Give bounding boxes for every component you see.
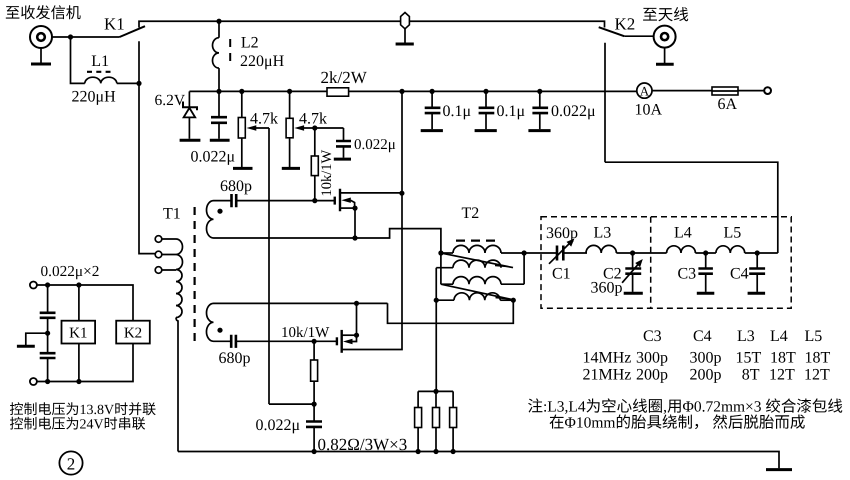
svg-text:C3: C3 <box>678 266 697 283</box>
svg-text:300p: 300p <box>636 350 668 367</box>
svg-text:15T: 15T <box>736 350 762 367</box>
svg-text:680p: 680p <box>219 350 251 367</box>
svg-text:10A: 10A <box>635 102 663 119</box>
svg-text:0.022μ: 0.022μ <box>551 103 596 120</box>
svg-text:0.82Ω/3W×3: 0.82Ω/3W×3 <box>318 435 408 454</box>
svg-text:18T: 18T <box>770 350 796 367</box>
svg-text:0.022μ: 0.022μ <box>256 417 301 434</box>
svg-text:12T: 12T <box>804 367 830 384</box>
svg-text:在Φ10mm的胎具绕制， 然后脱胎而成: 在Φ10mm的胎具绕制， 然后脱胎而成 <box>549 414 805 432</box>
svg-text:680p: 680p <box>220 178 252 195</box>
svg-text:2: 2 <box>67 455 76 474</box>
svg-text:0.1μ: 0.1μ <box>443 103 472 120</box>
svg-text:21MHz: 21MHz <box>583 367 632 384</box>
svg-text:L4: L4 <box>770 328 788 345</box>
svg-text:0.022μ: 0.022μ <box>354 137 396 153</box>
svg-text:200p: 200p <box>690 367 722 384</box>
svg-text:2k/2W: 2k/2W <box>321 68 368 87</box>
svg-text:300p: 300p <box>690 350 722 367</box>
svg-text:8T: 8T <box>742 367 760 384</box>
svg-text:A: A <box>640 83 650 98</box>
svg-text:注:L3,L4为空心线圈,用Φ0.72mm×3 绞合漆包线: 注:L3,L4为空心线圈,用Φ0.72mm×3 绞合漆包线 <box>528 398 843 416</box>
svg-text:控制电压为24V时串联: 控制电压为24V时串联 <box>10 417 146 433</box>
svg-text:4.7k: 4.7k <box>250 111 278 128</box>
svg-text:12T: 12T <box>769 367 795 384</box>
svg-text:0.1μ: 0.1μ <box>497 103 526 120</box>
svg-text:L4: L4 <box>674 225 692 242</box>
svg-text:K1: K1 <box>104 15 125 34</box>
svg-text:220μH: 220μH <box>240 53 285 70</box>
svg-text:L3: L3 <box>737 328 755 345</box>
svg-text:K1: K1 <box>69 326 87 342</box>
svg-text:4.7k: 4.7k <box>299 111 327 128</box>
svg-text:T1: T1 <box>163 206 181 223</box>
svg-text:控制电压为13.8V时并联: 控制电压为13.8V时并联 <box>10 402 157 418</box>
svg-text:6A: 6A <box>718 96 738 113</box>
svg-text:200p: 200p <box>636 367 668 384</box>
svg-text:C3: C3 <box>643 328 662 345</box>
svg-text:0.022μ: 0.022μ <box>191 149 236 166</box>
svg-text:C4: C4 <box>730 266 749 283</box>
svg-text:L2: L2 <box>241 34 259 51</box>
svg-text:至收发信机: 至收发信机 <box>5 5 81 22</box>
svg-text:18T: 18T <box>805 350 831 367</box>
svg-text:C1: C1 <box>552 266 571 283</box>
svg-text:至天线: 至天线 <box>642 6 689 24</box>
svg-text:10k/1W: 10k/1W <box>281 325 330 341</box>
svg-text:6.2V: 6.2V <box>155 92 186 109</box>
svg-text:L1: L1 <box>91 53 109 70</box>
svg-text:C4: C4 <box>693 328 712 345</box>
svg-text:10k/1W: 10k/1W <box>319 149 335 196</box>
svg-text:0.022μ×2: 0.022μ×2 <box>41 263 100 280</box>
svg-text:K2: K2 <box>615 15 636 34</box>
svg-text:L5: L5 <box>724 225 742 242</box>
svg-text:360p: 360p <box>546 225 578 242</box>
svg-text:360p: 360p <box>591 280 623 297</box>
svg-text:L3: L3 <box>594 225 612 242</box>
svg-text:L5: L5 <box>805 328 823 345</box>
svg-text:K2: K2 <box>124 326 142 342</box>
svg-text:220μH: 220μH <box>72 89 117 106</box>
svg-text:14MHz: 14MHz <box>583 350 632 367</box>
svg-text:T2: T2 <box>462 205 480 222</box>
